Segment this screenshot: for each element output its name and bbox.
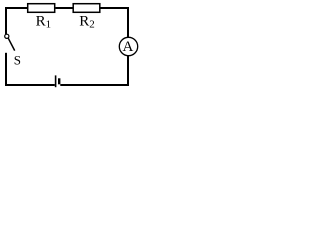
svg-text:2: 2 <box>89 19 95 31</box>
wire right lower (ammeter to bottom corner) <box>127 56 129 86</box>
wire between R1 and R2 <box>55 7 73 9</box>
svg-text:R: R <box>36 14 46 30</box>
switch S pivot circle <box>5 34 9 38</box>
svg-text:1: 1 <box>46 19 52 31</box>
switch S blade <box>8 38 14 50</box>
wire bottom-right (corner to battery) <box>60 84 129 86</box>
svg-text:S: S <box>14 52 21 67</box>
wire top-right (R2 to right corner) <box>100 7 129 9</box>
battery: short thick plate (negative) <box>58 78 60 84</box>
svg-text:R: R <box>79 14 89 30</box>
wire left lower (bottom corner up to switch blade) <box>5 53 7 86</box>
wire bottom-left (battery to left corner) <box>5 84 55 86</box>
resistor R2 <box>73 4 100 13</box>
battery: long thin plate (positive) <box>55 75 57 87</box>
resistor R1 <box>28 4 55 13</box>
wire left upper (top corner down to switch pivot) <box>5 7 7 34</box>
wire top-left (battery/switch node to R1) <box>6 7 27 9</box>
wire right upper (corner down to ammeter) <box>127 7 129 38</box>
svg-text:A: A <box>122 39 133 55</box>
ammeter A <box>119 37 137 55</box>
